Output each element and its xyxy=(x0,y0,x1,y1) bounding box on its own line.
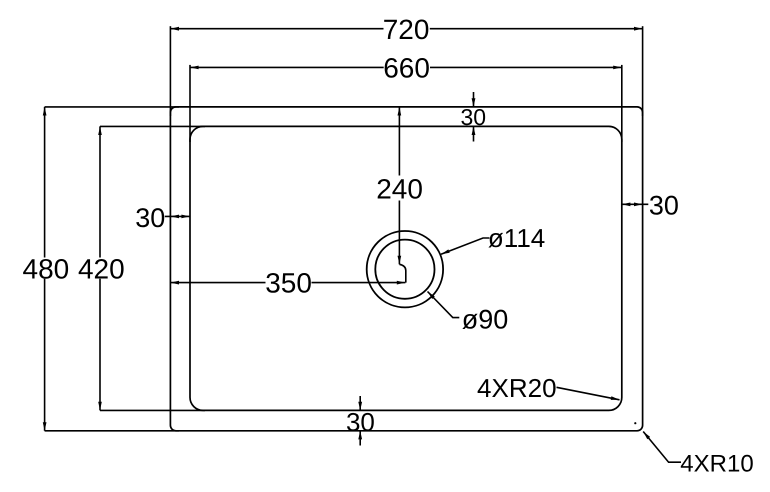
dimension 30 bottom: upper arrow stem xyxy=(359,396,361,410)
arrowhead 30 top lower xyxy=(472,126,476,135)
dimension 480: dimension line lower segment xyxy=(44,279,46,431)
dimension 720: dimension line right segment xyxy=(430,28,643,30)
dimension 240: jog to circle centre xyxy=(399,264,405,282)
dimension 420: extension line top (inner rect top edge extended left) xyxy=(100,125,205,127)
leader line D114 xyxy=(441,238,490,254)
dimension 720: dimension line left segment xyxy=(170,28,383,30)
leader line 4XR10 xyxy=(643,432,681,463)
svg-text:720: 720 xyxy=(383,14,430,45)
dimension 480: extension line top (plate top edge extended left) xyxy=(45,106,179,108)
svg-text:30: 30 xyxy=(346,407,375,437)
svg-text:240: 240 xyxy=(376,173,423,204)
dimension 660: extension line right xyxy=(621,65,623,142)
leader line D90 xyxy=(428,292,460,318)
arrowhead 480 top xyxy=(43,107,47,116)
arrowhead 660 right xyxy=(613,66,622,70)
arrowhead 30 right leftward xyxy=(622,203,631,207)
arrowhead 420 top xyxy=(98,126,102,135)
arrowhead 350 left xyxy=(170,281,179,285)
dimension 350: dimension line right segment xyxy=(312,282,406,284)
arrowhead 240 bottom xyxy=(398,256,402,265)
outer plate 720x480 rectangle xyxy=(170,107,642,431)
arrowhead leader 4XR10 xyxy=(643,432,650,440)
stray dot mark xyxy=(634,422,636,424)
inner recess 660x420 rounded rectangle R20 xyxy=(190,126,622,410)
arrowhead leader D90 xyxy=(428,292,435,300)
dimension 240: stem upper segment xyxy=(398,107,400,176)
arrowhead 720 left xyxy=(170,27,179,31)
svg-text:4XR10: 4XR10 xyxy=(680,450,753,477)
arrowhead 480 bottom xyxy=(43,422,47,431)
dimension 660: dimension line right segment xyxy=(430,66,622,68)
dimension 30 bottom: lower arrow stem xyxy=(359,431,361,446)
dimension 350: dimension line left segment xyxy=(170,282,265,284)
svg-text:350: 350 xyxy=(265,267,312,298)
dimension 420: extension line bottom (inner rect bottom edge extended left) xyxy=(100,409,205,411)
arrowhead 420 bottom xyxy=(98,402,102,411)
svg-text:30: 30 xyxy=(461,104,487,130)
dimension 420: dimension line upper segment xyxy=(99,126,101,257)
dimension 30 top: upper arrow stem xyxy=(473,92,475,107)
svg-text:480: 480 xyxy=(23,253,70,284)
arrowhead 720 right xyxy=(634,27,643,31)
svg-text:4XR20: 4XR20 xyxy=(477,373,557,403)
dimension 480: extension line bottom (plate bottom edge extended left) xyxy=(45,430,179,432)
dimension 660: dimension line left segment xyxy=(190,66,384,68)
svg-text:30: 30 xyxy=(135,203,165,233)
arrowhead leader 4XR20 xyxy=(611,396,620,400)
dimension 720: extension line right xyxy=(642,26,644,116)
leader line 4XR20 xyxy=(557,387,620,400)
arrowhead 30 top upper xyxy=(472,98,476,107)
dimension 30 right: dimension line xyxy=(622,203,649,205)
arrowhead 30 bottom upper xyxy=(358,402,362,411)
svg-text:ø90: ø90 xyxy=(462,304,509,334)
dimension 720: extension line left (plate left edge extended up) xyxy=(169,26,171,116)
arrowhead 350 right xyxy=(397,281,406,285)
svg-text:660: 660 xyxy=(383,53,430,84)
arrowhead leader D114 xyxy=(441,249,450,254)
dimension 30 left: dimension line xyxy=(165,215,190,217)
dimension 420: dimension line lower segment xyxy=(99,279,101,411)
dimension 240: stem lower segment xyxy=(398,201,400,265)
svg-text:30: 30 xyxy=(649,191,679,221)
arrowhead 30 bottom lower xyxy=(358,431,362,440)
dimension 480: dimension line upper segment xyxy=(44,107,46,258)
dimension 660: extension line left (inner rect left edge extended up) xyxy=(189,65,191,142)
svg-text:420: 420 xyxy=(78,253,125,284)
hole inner circle D90 xyxy=(375,240,434,299)
arrowhead 30 left rightward xyxy=(181,215,190,219)
arrowhead 30 left leftward xyxy=(170,215,179,219)
svg-text:ø114: ø114 xyxy=(488,223,545,253)
arrowhead 30 right rightward xyxy=(634,203,643,207)
arrowhead 660 left xyxy=(190,66,199,70)
dimension 30 top: lower arrow stem xyxy=(473,126,475,141)
arrowhead 240 top xyxy=(398,107,402,116)
hole outer circle D114 xyxy=(367,231,443,307)
